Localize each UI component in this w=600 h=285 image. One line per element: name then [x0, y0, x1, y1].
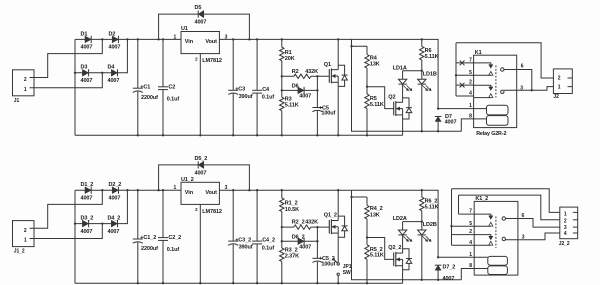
svg-text:10.5K: 10.5K: [285, 207, 299, 213]
svg-text:LM7812: LM7812: [202, 209, 222, 215]
svg-text:13K: 13K: [370, 213, 380, 219]
svg-text:2: 2: [564, 219, 567, 225]
svg-text:0.1uf: 0.1uf: [262, 95, 275, 101]
svg-text:D4_2: D4_2: [108, 215, 121, 221]
svg-text:100uf: 100uf: [321, 111, 335, 117]
svg-text:2: 2: [24, 77, 27, 83]
svg-text:8: 8: [469, 263, 472, 269]
svg-text:D2: D2: [109, 31, 116, 37]
svg-text:SW: SW: [343, 270, 351, 276]
svg-text:D2_2: D2_2: [109, 182, 122, 188]
svg-text:7: 7: [469, 209, 472, 215]
svg-text:+C1_2: +C1_2: [140, 235, 156, 241]
svg-text:5.11K: 5.11K: [370, 102, 384, 108]
svg-text:3: 3: [520, 85, 523, 91]
svg-text:LD1B: LD1B: [423, 71, 437, 77]
svg-text:100uf: 100uf: [321, 261, 335, 267]
svg-text:4007: 4007: [109, 45, 121, 51]
svg-text:D5: D5: [195, 5, 202, 11]
svg-text:4007: 4007: [299, 94, 311, 100]
svg-text:2200uf: 2200uf: [141, 95, 158, 101]
svg-text:D7_2: D7_2: [443, 264, 456, 270]
svg-text:1: 1: [174, 185, 177, 191]
svg-text:R1: R1: [285, 50, 292, 56]
svg-text:R2: R2: [292, 69, 299, 75]
svg-text:0.1uf: 0.1uf: [167, 247, 180, 253]
svg-text:1: 1: [469, 103, 472, 109]
svg-text:K1: K1: [475, 50, 482, 56]
svg-text:D4: D4: [108, 65, 116, 71]
svg-text:J1: J1: [14, 98, 20, 104]
svg-text:5.11K: 5.11K: [285, 103, 299, 109]
svg-text:LD1A: LD1A: [393, 65, 407, 71]
svg-text:390uf: 390uf: [239, 245, 253, 251]
svg-text:6: 6: [521, 63, 524, 69]
svg-text:5.11K: 5.11K: [425, 205, 439, 211]
svg-text:R4: R4: [370, 55, 378, 61]
svg-text:D5_2: D5_2: [195, 156, 208, 162]
svg-text:6: 6: [522, 213, 525, 219]
svg-text:7: 7: [469, 58, 472, 64]
svg-text:4: 4: [469, 91, 472, 97]
svg-text:4: 4: [469, 240, 472, 246]
svg-text:Vout: Vout: [205, 190, 217, 196]
svg-text:2200uf: 2200uf: [141, 246, 158, 252]
svg-text:0.1uf: 0.1uf: [167, 96, 180, 102]
svg-text:LD2B: LD2B: [423, 222, 437, 228]
svg-text:K1_2: K1_2: [475, 196, 488, 202]
svg-text:4007: 4007: [81, 45, 93, 51]
svg-text:D6: D6: [292, 84, 299, 90]
svg-text:2: 2: [24, 228, 27, 234]
svg-text:1: 1: [174, 34, 177, 40]
svg-text:C2_2: C2_2: [168, 235, 181, 241]
svg-text:2: 2: [558, 76, 561, 82]
svg-text:R2_2: R2_2: [292, 220, 305, 226]
svg-text:Vin: Vin: [185, 190, 194, 196]
svg-text:5.11K: 5.11K: [370, 253, 384, 259]
svg-text:1: 1: [558, 84, 561, 90]
svg-text:Q1_2: Q1_2: [324, 213, 337, 219]
svg-text:D3: D3: [81, 65, 88, 71]
svg-text:432K: 432K: [305, 69, 318, 75]
svg-text:C4_2: C4_2: [262, 238, 275, 244]
svg-text:C4: C4: [262, 87, 270, 93]
svg-text:2: 2: [469, 80, 472, 86]
svg-text:LM7812: LM7812: [202, 58, 222, 64]
svg-text:R1_2: R1_2: [285, 201, 298, 207]
svg-text:D6_2: D6_2: [292, 234, 305, 240]
svg-text:1: 1: [564, 211, 567, 217]
svg-text:D1: D1: [81, 31, 88, 37]
svg-text:Q2_2: Q2_2: [388, 245, 401, 251]
svg-text:4: 4: [564, 231, 567, 237]
svg-text:LD2A: LD2A: [393, 216, 407, 222]
svg-text:C2: C2: [168, 84, 175, 90]
svg-text:J1_2: J1_2: [14, 249, 25, 255]
svg-text:3: 3: [225, 185, 228, 191]
svg-text:D1_2: D1_2: [81, 182, 94, 188]
svg-text:4007: 4007: [195, 20, 207, 26]
svg-text:3: 3: [522, 234, 525, 240]
svg-text:U1_2: U1_2: [181, 177, 194, 183]
svg-text:J2: J2: [553, 94, 559, 100]
svg-text:+C3: +C3: [235, 87, 245, 93]
svg-text:0.1uf: 0.1uf: [262, 245, 275, 251]
svg-text:4007: 4007: [108, 229, 120, 235]
svg-text:4007: 4007: [445, 120, 457, 126]
svg-text:D3_2: D3_2: [81, 215, 94, 221]
svg-text:Vin: Vin: [185, 39, 194, 45]
svg-text:+C3_2: +C3_2: [235, 238, 251, 244]
svg-text:U1: U1: [181, 26, 188, 32]
svg-text:4007: 4007: [108, 78, 120, 84]
svg-text:5.11K: 5.11K: [425, 54, 439, 60]
svg-text:390uf: 390uf: [239, 94, 253, 100]
svg-text:432K: 432K: [305, 220, 318, 226]
svg-text:1: 1: [469, 252, 472, 258]
svg-text:13K: 13K: [370, 62, 380, 68]
svg-text:J2_2: J2_2: [559, 241, 570, 247]
svg-text:2.37K: 2.37K: [285, 253, 299, 259]
svg-text:4007: 4007: [81, 229, 93, 235]
svg-text:Q1: Q1: [324, 62, 331, 68]
svg-text:R4_2: R4_2: [370, 206, 383, 212]
svg-text:Q2: Q2: [388, 94, 395, 100]
svg-text:4007: 4007: [299, 244, 311, 250]
svg-text:8: 8: [469, 114, 472, 120]
svg-text:4007: 4007: [109, 195, 121, 201]
svg-text:Vout: Vout: [205, 39, 217, 45]
svg-text:4007: 4007: [81, 78, 93, 84]
svg-text:1: 1: [24, 238, 27, 244]
svg-text:3: 3: [225, 34, 228, 40]
svg-text:4007: 4007: [195, 171, 207, 177]
svg-text:Relay G2R-2: Relay G2R-2: [476, 131, 506, 137]
svg-text:1: 1: [24, 87, 27, 93]
svg-text:2: 2: [469, 229, 472, 235]
svg-text:4007: 4007: [443, 276, 455, 282]
svg-text:4007: 4007: [81, 195, 93, 201]
svg-text:20K: 20K: [285, 56, 295, 62]
svg-text:+C1: +C1: [140, 84, 150, 90]
svg-text:5: 5: [469, 221, 472, 227]
svg-text:5: 5: [469, 70, 472, 76]
